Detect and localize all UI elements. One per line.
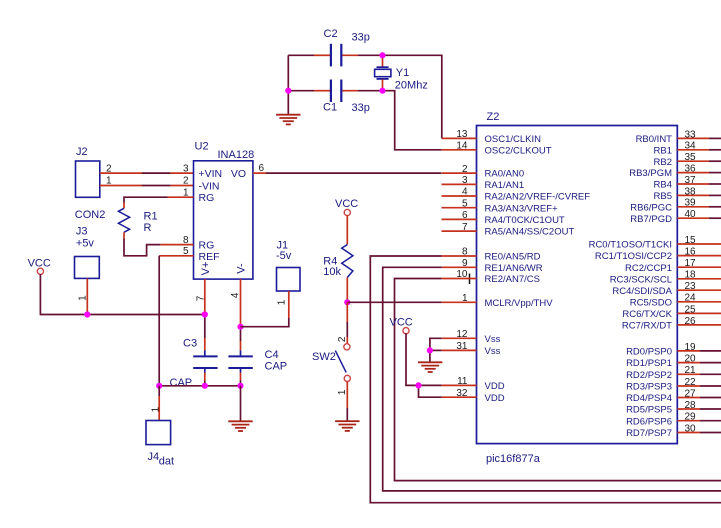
wire VCC to REF row [40,274,204,315]
svg-text:40: 40 [685,209,697,220]
pin 37 RB4 [654,175,721,191]
svg-text:RD5/PSP5: RD5/PSP5 [626,405,672,416]
node XTAL junction bottom [379,88,385,94]
pin 30 RD7/PSP7 [626,423,721,439]
svg-text:OSC2/CLKOUT: OSC2/CLKOUT [485,145,552,156]
svg-text:C4: C4 [265,349,279,361]
svg-text:VCC: VCC [335,198,358,210]
svg-text:VDD: VDD [485,393,505,404]
svg-text:RG: RG [199,240,215,252]
svg-text:25: 25 [685,304,697,315]
svg-text:+VIN: +VIN [199,168,223,180]
wire U2 VO pin6 to Z2 RA0 [253,172,442,174]
pin 20 RD1/PSP1 [626,354,721,370]
svg-text:5: 5 [462,198,468,209]
svg-text:RC6/TX/CK: RC6/TX/CK [622,309,672,320]
svg-text:RB0/INT: RB0/INT [636,134,673,145]
pin 39 RB6/PGC [630,198,721,214]
svg-text:33p: 33p [352,102,370,114]
pin 15 RC0/T1OSO/T1CKI [589,235,721,251]
svg-text:dat: dat [159,455,174,467]
svg-text:RD1/PSP1: RD1/PSP1 [626,358,672,369]
svg-text:27: 27 [685,388,697,399]
svg-text:2: 2 [106,163,112,174]
wire J3 pin 1 [78,278,89,314]
wire U2 V+ pin7 down through C3 [195,279,206,386]
pin 17 RC2/CCP1 [625,258,721,274]
svg-text:RA1/AN1: RA1/AN1 [485,180,525,191]
wire XTAL top net (C2/Y1 to OSC1) [288,55,442,138]
svg-text:-VIN: -VIN [199,181,220,193]
svg-text:Vss: Vss [485,346,501,357]
pin 40 RB7/PGD [630,209,721,225]
node V- to J1 junction [237,324,243,330]
svg-text:3: 3 [462,175,468,186]
svg-text:37: 37 [685,175,697,186]
svg-text:RC2/CCP1: RC2/CCP1 [625,263,672,274]
node XTAL junction top [379,52,385,58]
svg-text:Vss: Vss [485,334,501,345]
svg-text:RD7/PSP7: RD7/PSP7 [626,428,672,439]
svg-text:32: 32 [456,388,468,399]
svg-text:RD0/PSP0: RD0/PSP0 [626,347,672,358]
svg-text:CAP: CAP [265,360,288,372]
svg-text:R: R [144,222,152,234]
pin 28 RD5/PSP5 [626,400,721,416]
pin 35 RB2 [654,152,721,168]
pin 6 RA4/T0CK/C1OUT [442,210,565,226]
wire Vss pins to ground [430,338,442,362]
svg-text:1: 1 [78,295,89,301]
svg-text:2: 2 [183,176,189,187]
pin 23 RC4/SDI/SDA [612,281,721,297]
wire J2 pin 1 to U2 -VIN [100,176,194,187]
svg-text:C2: C2 [324,28,338,40]
svg-text:1: 1 [150,406,161,412]
svg-text:C3: C3 [183,337,197,349]
wire R1 bottom to U2 pin8 RG [124,232,194,256]
ground under C1 [276,115,300,125]
svg-text:RE1/AN6/WR: RE1/AN6/WR [485,263,543,274]
wire SW2 to ground [346,382,348,421]
capacitor C4 [228,349,287,372]
svg-text:RD2/PSP2: RD2/PSP2 [626,370,672,381]
svg-text:26: 26 [685,316,697,327]
pin 16 RC1/T1OSI/CCP2 [595,247,721,263]
text caret artifact near pin 10 [469,274,471,285]
wire J1 pin 1 to V- [241,291,289,327]
wire U2 REF pin5 down to CAP row [159,256,193,386]
svg-text:12: 12 [456,329,468,340]
svg-text:36: 36 [685,164,697,175]
pin 34 RB1 [654,141,721,157]
svg-text:RA0/AN0: RA0/AN0 [485,169,525,180]
svg-text:Y1: Y1 [396,67,409,79]
wire J4 pin 1 [150,386,161,421]
svg-text:24: 24 [685,293,697,304]
pin 31 Vss [442,341,501,357]
pin 33 RB0/INT [636,129,721,145]
svg-text:RB5: RB5 [654,191,672,202]
svg-text:CAP: CAP [170,377,193,389]
power VCC left [28,258,51,275]
pin 5 RA3/AN3/VREF+ [442,198,559,214]
capacitor C3 [170,337,218,389]
ground under SW2 [335,421,359,431]
node R4/SW2/MCLR junction [344,299,350,305]
wire R4 bottom to MCLR junction [346,278,348,303]
svg-text:1: 1 [106,176,112,187]
svg-text:7: 7 [462,222,468,233]
svg-text:10k: 10k [323,266,341,278]
pin 9 RE1/AN6/WR [442,258,543,274]
svg-text:28: 28 [685,400,697,411]
svg-text:RA5/AN4/SS/C2OUT: RA5/AN4/SS/C2OUT [485,227,575,238]
svg-text:SW2: SW2 [312,351,336,363]
svg-text:MCLR/Vpp/THV: MCLR/Vpp/THV [485,298,554,309]
svg-text:2: 2 [462,164,468,175]
wire C4 ground stem [240,386,242,421]
node V+ on VCC row [202,311,208,317]
connector J3 +5v [75,226,100,279]
svg-text:33p: 33p [352,31,370,43]
ground under Vss [418,362,442,372]
svg-text:RB2: RB2 [654,157,672,168]
svg-text:VO: VO [231,168,246,180]
capacitor C1 [323,80,370,115]
svg-text:V+: V+ [200,262,212,276]
svg-text:RC3/SCK/SCL: RC3/SCK/SCL [610,274,672,285]
svg-text:RG: RG [199,192,215,204]
pin 29 RD6/PSP6 [626,412,721,428]
pin 1 MCLR/Vpp/THV [442,293,553,309]
pin 24 RC5/SDO [630,293,721,309]
microcontroller Z2 pic16f877a body [477,111,678,465]
pin 21 RD2/PSP2 [626,365,721,381]
svg-text:RD4/PSP4: RD4/PSP4 [626,393,672,404]
svg-text:RC0/T1OSO/T1CKI: RC0/T1OSO/T1CKI [589,240,672,251]
node J3 junction [84,311,90,317]
power VCC at VDD [390,316,413,334]
pin 4 RA2/AN2/VREF-/CVREF [442,187,591,203]
node Vss junction [427,347,433,353]
svg-text:31: 31 [456,341,468,352]
svg-text:RB4: RB4 [654,180,672,191]
svg-text:VDD: VDD [485,381,505,392]
ground under C4 [228,421,252,431]
svg-text:RB3/PGM: RB3/PGM [629,168,672,179]
pin 12 Vss [442,329,501,345]
svg-text:29: 29 [685,412,697,423]
pin 32 VDD [442,388,505,404]
pin 3 RA1/AN1 [442,175,525,191]
svg-text:J2: J2 [76,146,88,158]
svg-text:2: 2 [337,336,348,342]
svg-text:1: 1 [276,299,287,305]
svg-text:21: 21 [685,365,697,376]
pin 27 RD4/PSP4 [626,388,721,404]
connector J1 -5v [276,240,300,292]
svg-text:RE0/AN5/RD: RE0/AN5/RD [485,252,541,263]
svg-text:RC5/SDO: RC5/SDO [630,297,672,308]
svg-text:R1: R1 [144,211,158,223]
pin 18 RC3/SCK/SCL [610,270,721,286]
wire RE0 pin8 net to bottom bus [370,256,721,503]
power VCC at R4 [335,198,358,215]
wire RE2 pin10 net to bottom bus [395,279,721,481]
svg-text:17: 17 [685,258,697,269]
node VDD junction [415,382,421,388]
svg-text:1: 1 [337,389,348,395]
svg-text:REF: REF [199,251,220,263]
svg-text:V-: V- [235,263,247,274]
connector J4 dat [146,421,174,468]
pin 25 RC6/TX/CK [622,304,721,320]
svg-text:OSC1/CLKIN: OSC1/CLKIN [485,134,542,145]
svg-text:9: 9 [462,258,468,269]
wire CAP row [159,385,240,387]
svg-text:7: 7 [195,295,206,301]
svg-text:4: 4 [462,187,468,198]
pin 11 VDD [442,376,505,392]
svg-text:+5v: +5v [76,237,95,249]
pin 13 OSC1/CLKIN [442,129,541,145]
pin 2 RA0/AN0 [442,164,524,180]
svg-text:RD3/PSP3: RD3/PSP3 [626,382,672,393]
pin 19 RD0/PSP0 [626,342,721,358]
svg-text:J3: J3 [76,226,88,238]
connector J2 [75,146,106,221]
svg-text:RB6/PGC: RB6/PGC [630,202,672,213]
svg-text:20: 20 [685,354,697,365]
pin 38 RB5 [654,186,721,202]
svg-text:RC7/RX/DT: RC7/RX/DT [622,321,672,332]
wire RE1 pin9 net to bottom bus [383,267,721,491]
svg-text:34: 34 [685,141,697,152]
svg-text:RA2/AN2/VREF-/CVREF: RA2/AN2/VREF-/CVREF [485,192,591,203]
node CAP left [156,383,162,389]
wire VCC to R4 [346,215,348,244]
svg-text:13: 13 [456,129,468,140]
svg-text:RB7/PGD: RB7/PGD [630,214,672,225]
switch SW2 [312,302,350,395]
svg-text:33: 33 [685,129,697,140]
pin 7 RA5/AN4/SS/C2OUT [442,222,575,238]
node XTAL junction bottom left [285,88,291,94]
node CAP middle [202,383,208,389]
svg-text:-5v: -5v [276,250,292,262]
svg-text:RD6/PSP6: RD6/PSP6 [626,416,672,427]
svg-text:35: 35 [685,152,697,163]
svg-text:30: 30 [685,423,697,434]
svg-text:14: 14 [456,141,468,152]
pin 22 RD3/PSP3 [626,377,721,393]
svg-text:6: 6 [462,210,468,221]
svg-text:INA128: INA128 [218,149,255,161]
svg-text:38: 38 [685,186,697,197]
svg-text:10: 10 [456,269,468,280]
svg-text:RB1: RB1 [654,145,672,156]
svg-text:19: 19 [685,342,697,353]
svg-text:RA4/T0CK/C1OUT: RA4/T0CK/C1OUT [485,215,565,226]
wire U2 pin1 RG to R1 top [124,197,194,208]
capacitor C2 [324,28,370,66]
pin 26 RC7/RX/DT [622,316,721,332]
svg-text:J4: J4 [148,451,160,463]
svg-text:39: 39 [685,198,697,209]
wire VCC to VDD pins [406,333,442,397]
svg-text:Z2: Z2 [487,111,500,123]
pin 14 OSC2/CLKOUT [442,141,552,157]
wire MCLR net to Z2 pin 1 [347,301,442,303]
svg-text:22: 22 [685,377,697,388]
svg-text:8: 8 [462,247,468,258]
svg-text:VCC: VCC [390,316,413,328]
pin 8 RE0/AN5/RD [442,247,541,263]
wire XTAL bottom net (C1/Y1 to OSC2) [288,91,442,150]
svg-text:RC1/T1OSI/CCP2: RC1/T1OSI/CCP2 [595,251,672,262]
svg-text:C1: C1 [323,101,337,113]
svg-text:CON2: CON2 [75,209,106,221]
resistor R4 10k [323,245,353,278]
node CAP right [237,383,243,389]
wire C1 left vertical and ground stem [287,55,289,114]
svg-text:3: 3 [183,163,189,174]
resistor R1 [118,208,157,234]
crystal Y1 [375,55,428,91]
svg-text:RC4/SDI/SDA: RC4/SDI/SDA [612,286,672,297]
svg-text:20Mhz: 20Mhz [395,80,428,92]
svg-text:15: 15 [685,235,697,246]
pin 36 RB3/PGM [629,164,721,180]
svg-text:23: 23 [685,281,697,292]
svg-text:4: 4 [230,292,241,298]
svg-text:U2: U2 [195,141,209,153]
svg-text:RA3/AN3/VREF+: RA3/AN3/VREF+ [485,203,559,214]
svg-text:RE2/AN7/CS: RE2/AN7/CS [485,274,540,285]
op-amp U2 INA128 body [194,141,255,280]
svg-text:11: 11 [457,376,468,387]
svg-text:16: 16 [685,247,697,258]
svg-text:18: 18 [685,270,697,281]
svg-text:1: 1 [462,293,468,304]
wire U2 V- pin4 down through C4 [230,279,241,386]
svg-text:pic16f877a: pic16f877a [486,453,541,465]
pin 10 RE2/AN7/CS [442,269,540,285]
wire J2 pin 2 to U2 +VIN [100,163,194,174]
